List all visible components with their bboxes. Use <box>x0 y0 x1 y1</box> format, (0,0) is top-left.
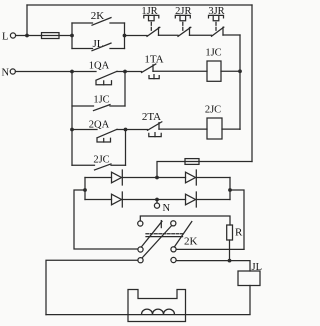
contact 1JR (NC) <box>147 27 178 36</box>
svg-text:1JC: 1JC <box>205 48 221 59</box>
fuse FU2 <box>185 159 199 165</box>
wire 1JC branch up <box>124 72 126 107</box>
wire bridge top feed <box>157 162 185 178</box>
svg-text:L: L <box>2 31 8 42</box>
switch 2K blade 3 <box>174 222 192 248</box>
wire bridge right stub <box>230 190 244 249</box>
wire main line to 1JR <box>125 35 148 37</box>
switch 2K terminal MR <box>171 247 176 252</box>
coil JL <box>238 271 260 286</box>
svg-text:2QA: 2QA <box>89 119 110 130</box>
svg-text:2JC: 2JC <box>93 155 109 166</box>
terminal N bridge <box>154 200 159 209</box>
wire top bus <box>27 4 252 6</box>
wire box right vertical <box>124 23 126 49</box>
wire vertical to top bus <box>26 5 28 36</box>
switch 2K blade 1 <box>141 221 162 247</box>
bridge right bracket <box>229 178 231 200</box>
wire to 1TA <box>125 71 142 73</box>
pushbutton 1QA (NO start) <box>96 71 125 84</box>
wire fuse to parallel box <box>59 35 72 37</box>
pushbutton 2QA (NO) <box>72 129 126 142</box>
node bridge bottom mid <box>155 198 159 202</box>
wire JL bottom <box>249 286 251 315</box>
svg-text:2K: 2K <box>184 236 198 248</box>
wire bottom bus <box>46 314 250 316</box>
node 2QA right <box>124 128 128 132</box>
contact 2JR (NC) <box>178 27 212 36</box>
svg-text:1QA: 1QA <box>89 61 110 72</box>
wire top row middle <box>122 177 185 179</box>
node R bottom <box>228 259 232 263</box>
wire bottom row middle <box>122 199 185 201</box>
wire top row right <box>196 177 230 179</box>
wire BR to JL coil <box>176 261 250 271</box>
contact JL (NO) bottom branch <box>72 43 125 51</box>
coil 1JC <box>207 61 221 81</box>
node L-top junction <box>25 34 29 38</box>
diode D2 <box>112 192 123 207</box>
svg-text:R: R <box>235 227 243 239</box>
wire inner rail <box>239 35 241 129</box>
switch 2K terminal BL <box>138 258 143 263</box>
svg-text:1TA: 1TA <box>144 54 163 66</box>
contact 2JC (NO) <box>72 164 126 170</box>
node N line right <box>123 70 127 74</box>
electromagnet coil <box>142 309 175 314</box>
bridge left bracket <box>84 178 86 200</box>
wire 1JC to inner rail <box>221 70 240 72</box>
thermal element 1JR <box>144 15 159 30</box>
pushbutton 2TA (NC stop) <box>148 122 208 137</box>
thermal element 2JR <box>175 15 190 30</box>
wire right outer rail <box>251 5 253 162</box>
electromagnet yoke <box>128 290 186 322</box>
svg-text:N: N <box>163 203 171 214</box>
svg-text:1JC: 1JC <box>93 95 109 106</box>
svg-text:2JC: 2JC <box>205 104 221 115</box>
wire box left vertical <box>71 23 73 49</box>
terminal L <box>10 33 15 38</box>
wire switch top feed <box>140 216 230 225</box>
switch 2K link <box>146 234 183 237</box>
fuse FU1 <box>42 33 60 39</box>
contact 3JR (NC) <box>212 27 241 36</box>
terminal N <box>10 69 15 74</box>
diode D4 <box>186 192 197 207</box>
node 1JC output <box>238 69 242 73</box>
wire fuse2 to outer rail <box>199 161 252 163</box>
wire left rail <box>71 72 73 166</box>
switch 2K terminal ML <box>138 247 143 252</box>
node parallel box left <box>70 34 74 38</box>
wire bottom row right <box>196 199 230 201</box>
contact 1JC (NO) <box>72 105 125 111</box>
node parallel box right <box>123 34 127 38</box>
node N left rail <box>70 70 74 74</box>
wire bridge bottom row left <box>85 199 112 201</box>
wire bridge left stub <box>74 190 138 249</box>
resistor R <box>227 225 233 240</box>
diode D3 <box>186 170 197 185</box>
wire R bottom <box>229 240 231 261</box>
wire to 2TA <box>126 129 148 131</box>
node bridge left <box>83 188 87 192</box>
coil 2JC <box>207 118 222 139</box>
wire BL to bottom loop <box>46 260 138 314</box>
node bridge right <box>228 188 232 192</box>
switch 2K terminal BR <box>171 257 176 262</box>
node bridge top mid <box>155 176 159 180</box>
svg-text:2K: 2K <box>91 10 105 22</box>
node 2QA left <box>70 128 74 132</box>
contact 2K (NO) top branch <box>72 18 125 26</box>
wire 2JC branch up <box>125 130 127 166</box>
wire N line <box>15 71 96 73</box>
switch 2K terminal TL <box>138 221 143 226</box>
wire MR to bridge right <box>176 248 244 250</box>
switch 2K blade 2 <box>142 226 171 258</box>
wire 2JC to inner rail <box>222 128 240 130</box>
wire L to fuse <box>16 35 42 37</box>
switch 2K terminal TR <box>171 221 176 226</box>
diode D1 <box>112 170 123 185</box>
wire bridge top row left <box>85 177 112 179</box>
svg-text:N: N <box>2 67 10 78</box>
svg-text:2TA: 2TA <box>142 111 161 123</box>
thermal element 3JR <box>209 15 224 30</box>
pushbutton 1TA (NC stop) <box>142 64 208 79</box>
